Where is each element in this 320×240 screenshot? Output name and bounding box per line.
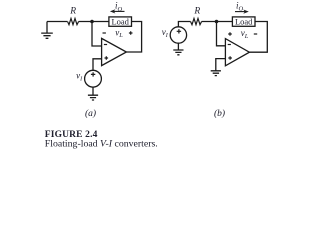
wire ground to resistor R (a) (47, 21, 68, 23)
Load box (a) (109, 17, 132, 26)
source vI (b) (170, 27, 186, 43)
noninverting input wire (a) (93, 59, 102, 71)
svg-text:Load: Load (235, 17, 253, 27)
svg-text:Floating-load V-I converters.: Floating-load V-I converters. (45, 138, 158, 149)
source vI (a) (85, 70, 102, 87)
svg-text:(b): (b) (214, 108, 225, 119)
svg-text:Load: Load (111, 17, 129, 27)
plus sign in source (b) (177, 29, 181, 33)
resistor R (b) (191, 19, 202, 25)
ground left of circuit (a) (41, 22, 53, 39)
svg-text:iO: iO (236, 0, 244, 12)
wire source to ground (a) (92, 87, 94, 95)
minus input marker (b) (228, 44, 231, 46)
wire source to ground (b) (177, 43, 179, 50)
ground at noninverting input (b) (211, 71, 221, 76)
Load box (b) (232, 17, 255, 26)
minus input marker (a) (104, 44, 107, 46)
inverting input wire (a) (92, 22, 102, 47)
label plus of vL (a) (129, 31, 133, 35)
op-amp U2 (b) (225, 39, 249, 66)
svg-text:vI: vI (76, 71, 83, 83)
junction node (b) (215, 20, 219, 24)
label minus of vL (a) (103, 32, 106, 34)
wire source up to resistor (b) (178, 22, 190, 27)
wire resistor to Load box (b) (202, 21, 233, 23)
noninverting input wire (b) (216, 59, 226, 71)
ground under source (b) (173, 50, 183, 55)
junction node (a) (90, 20, 94, 24)
plus sign in source (a) (91, 72, 95, 76)
wire resistor to Load box (a) (79, 21, 109, 23)
output wire (b) (249, 22, 267, 53)
plus input marker (a) (105, 56, 109, 60)
plus input marker (b) (228, 56, 232, 60)
svg-text:vL: vL (241, 28, 249, 40)
label minus of vL (b) (254, 33, 257, 35)
output wire (a) (126, 22, 141, 53)
label plus of vL (b) (228, 32, 232, 36)
current arrow iO (a) pointing left (114, 10, 125, 12)
svg-text:vI: vI (162, 27, 169, 39)
resistor R (a) (68, 19, 79, 25)
svg-text:R: R (69, 7, 76, 17)
inverting input wire (b) (217, 22, 226, 46)
svg-text:(a): (a) (85, 108, 96, 119)
svg-text:vL: vL (115, 27, 123, 39)
current arrow iO (b) pointing right (235, 11, 245, 13)
ground under source (a) (88, 95, 98, 100)
svg-text:R: R (193, 7, 200, 17)
op-amp U1 (a) (102, 38, 127, 65)
